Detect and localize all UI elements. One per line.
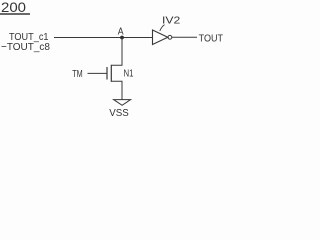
gate wire from TM to transistor N1 bbox=[88, 72, 108, 74]
svg-text:VSS: VSS bbox=[109, 107, 129, 119]
ground symbol VSS triangle bbox=[114, 100, 131, 106]
transistor N1 gate bar bbox=[106, 67, 108, 80]
svg-text:TOUT: TOUT bbox=[199, 33, 224, 45]
inverter IV2 triangle bbox=[153, 30, 168, 45]
wire output from IV2 to TOUT bbox=[172, 36, 197, 38]
inverter IV2 output bubble bbox=[168, 35, 172, 39]
svg-text:−TOUT_c8: −TOUT_c8 bbox=[1, 41, 50, 53]
wire node A to transistor N1 drain bbox=[111, 38, 122, 66]
figure label 200 bbox=[0, 0, 30, 15]
svg-text:N1: N1 bbox=[124, 69, 134, 80]
wire transistor N1 source to ground bbox=[111, 81, 122, 99]
svg-text:IV2: IV2 bbox=[162, 15, 180, 27]
wire input from TOUT_c1 to inverter IV2 bbox=[54, 37, 153, 39]
transistor N1 channel bar bbox=[110, 65, 112, 82]
inverter IV2 leader line bbox=[160, 25, 165, 31]
svg-text:A: A bbox=[118, 27, 124, 38]
svg-text:200: 200 bbox=[1, 0, 26, 15]
svg-text:TM: TM bbox=[72, 69, 83, 80]
node A junction dot bbox=[120, 36, 124, 40]
